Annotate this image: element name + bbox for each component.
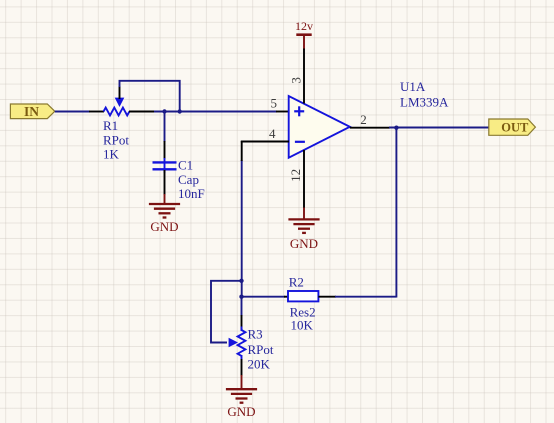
pin 5 of U1A: [276, 111, 289, 113]
svg-text:12: 12: [288, 169, 303, 182]
svg-text:IN: IN: [24, 104, 39, 119]
ground GND1 under C1: [149, 194, 180, 234]
wire R1 to opamp pin5: [154, 111, 277, 113]
R1 wiper arrow: [115, 86, 125, 107]
svg-text:GND: GND: [290, 236, 318, 251]
svg-text:R1: R1: [103, 118, 118, 133]
port OUT: [489, 119, 536, 135]
svg-text:LM339A: LM339A: [400, 94, 449, 109]
svg-text:RPot: RPot: [103, 132, 129, 147]
wire node B to R2: [242, 296, 286, 298]
ground GND3 under R3: [226, 375, 257, 419]
junction node B (R2 left): [239, 295, 243, 299]
junction node output: [394, 126, 398, 130]
svg-text:GND: GND: [227, 404, 255, 419]
svg-text:R2: R2: [289, 275, 304, 290]
capacitor C1 plates: [153, 162, 177, 169]
svg-text:20K: 20K: [248, 357, 271, 372]
pin R3.2: [241, 359, 243, 376]
pin R1.2: [129, 111, 155, 113]
svg-text:R3: R3: [248, 327, 263, 342]
svg-text:4: 4: [269, 126, 276, 141]
pin 2 of U1A: [350, 127, 390, 129]
svg-text:12v: 12v: [295, 19, 313, 33]
resistor R2 body: [288, 291, 318, 301]
wire R2 to output net: [335, 296, 396, 298]
svg-text:U1A: U1A: [400, 79, 426, 94]
resistor R3 lead stubs: [241, 327, 243, 332]
power 12v: [295, 19, 313, 49]
svg-text:OUT: OUT: [501, 121, 529, 135]
wire node B to R3: [241, 297, 243, 316]
pin 12 of U1A: [303, 150, 305, 208]
junction node C1: [162, 109, 166, 113]
svg-text:GND: GND: [150, 219, 178, 234]
svg-text:RPot: RPot: [248, 342, 274, 357]
svg-text:Cap: Cap: [178, 172, 199, 187]
wire IN to R1: [55, 111, 90, 113]
junction node A (wiper loop top): [239, 279, 243, 283]
ground GND2 under pin 12: [288, 208, 319, 252]
pin C1.2: [164, 170, 166, 195]
resistor R1 body (RPot zigzag): [104, 108, 130, 116]
wire R1 wiper loop: [120, 81, 180, 112]
svg-text:10nF: 10nF: [178, 186, 205, 201]
op-amp U1A: [289, 96, 350, 158]
svg-text:5: 5: [271, 96, 278, 111]
svg-text:C1: C1: [178, 158, 193, 173]
svg-text:10K: 10K: [291, 317, 314, 332]
svg-text:3: 3: [289, 77, 304, 84]
wire C1 drop: [164, 112, 166, 143]
pin R1.1: [89, 111, 104, 113]
pin R2.1: [284, 296, 288, 298]
wire pin2 to OUT: [389, 127, 490, 129]
wire pin4 to node A: [241, 160, 243, 297]
pin 4 of U1A: [241, 141, 289, 143]
pin R2.2: [318, 296, 336, 298]
capacitor C1 lead stub: [164, 158, 166, 173]
pin C1.1: [164, 141, 166, 159]
wire R3 wiper loop: [211, 281, 242, 343]
pin R3.1: [241, 315, 243, 331]
pin 3 of U1A: [303, 49, 305, 104]
resistor R3 body (RPot zigzag): [238, 330, 246, 356]
R3 wiper arrow: [229, 338, 238, 348]
svg-text:1K: 1K: [103, 147, 120, 162]
port IN: [10, 104, 54, 119]
svg-text:2: 2: [360, 112, 367, 127]
wire pin4 corner drop: [241, 141, 243, 161]
wire output vertical: [395, 128, 397, 298]
junction node wiper loop: [178, 109, 182, 113]
